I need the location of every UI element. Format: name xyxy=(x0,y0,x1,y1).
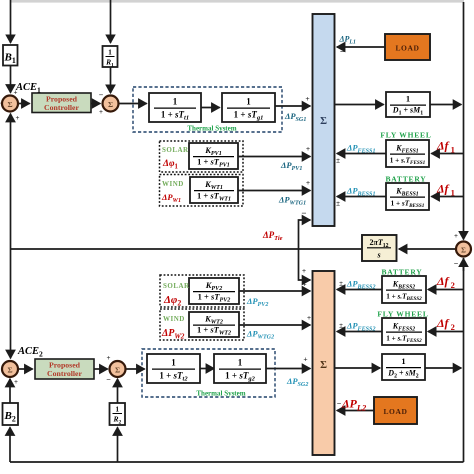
svg-text:+: + xyxy=(307,313,311,322)
svg-text:−: − xyxy=(301,208,306,218)
svg-text:LOAD: LOAD xyxy=(383,407,407,416)
svg-text:Σ: Σ xyxy=(7,366,12,375)
svg-text:−: − xyxy=(106,375,111,384)
svg-text:+: + xyxy=(303,355,307,364)
svg-text:+: + xyxy=(107,354,111,362)
svg-text:+: + xyxy=(305,94,309,103)
svg-text:−: − xyxy=(337,399,342,408)
svg-text:1: 1 xyxy=(238,358,243,368)
svg-text:BATTERY: BATTERY xyxy=(385,175,426,184)
svg-text:−: − xyxy=(454,259,459,268)
svg-text:−: − xyxy=(340,47,345,57)
svg-text:+: + xyxy=(16,114,20,122)
svg-text:±: ± xyxy=(336,157,340,165)
svg-text:Thermal System: Thermal System xyxy=(187,125,236,133)
svg-text:Thermal System: Thermal System xyxy=(196,390,245,398)
svg-text:Σ: Σ xyxy=(320,360,327,371)
svg-text:+: + xyxy=(302,280,306,289)
svg-text:LOAD: LOAD xyxy=(395,44,419,53)
svg-text:Σ: Σ xyxy=(115,366,120,375)
svg-text:+: + xyxy=(14,378,18,386)
svg-text:+: + xyxy=(99,108,103,116)
svg-text:1: 1 xyxy=(171,358,176,368)
svg-text:+: + xyxy=(306,178,310,187)
svg-text:+: + xyxy=(306,144,310,153)
svg-text:BATTERY: BATTERY xyxy=(381,268,422,277)
svg-text:±: ± xyxy=(339,322,343,330)
svg-text:Σ: Σ xyxy=(320,116,327,127)
svg-text:+: + xyxy=(302,266,306,275)
svg-text:1: 1 xyxy=(406,94,410,104)
svg-text:+: + xyxy=(454,232,458,240)
svg-text:±: ± xyxy=(339,280,343,288)
svg-text:FLY WHEEL: FLY WHEEL xyxy=(380,131,431,140)
svg-text:1: 1 xyxy=(115,405,119,414)
svg-text:WIND: WIND xyxy=(163,315,185,323)
svg-text:1: 1 xyxy=(108,48,112,57)
svg-text:1: 1 xyxy=(246,97,251,107)
svg-text:−: − xyxy=(99,91,104,100)
svg-text:+: + xyxy=(14,89,18,97)
svg-text:Controller: Controller xyxy=(47,369,82,378)
svg-text:s: s xyxy=(376,251,380,260)
svg-text:Σ: Σ xyxy=(461,245,466,254)
svg-text:Σ: Σ xyxy=(7,100,12,109)
svg-text:±: ± xyxy=(336,200,340,208)
svg-text:SOLAR: SOLAR xyxy=(163,282,190,290)
svg-text:Σ: Σ xyxy=(108,100,113,109)
svg-text:SOLAR: SOLAR xyxy=(162,146,189,154)
svg-text:Controller: Controller xyxy=(44,103,79,112)
svg-text:1: 1 xyxy=(173,97,178,107)
svg-text:1: 1 xyxy=(401,356,405,366)
svg-text:WIND: WIND xyxy=(162,180,184,188)
svg-text:FLY WHEEL: FLY WHEEL xyxy=(377,310,428,319)
